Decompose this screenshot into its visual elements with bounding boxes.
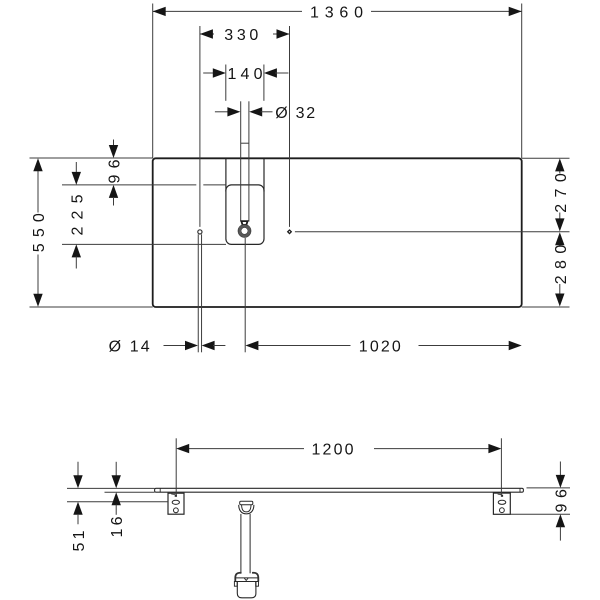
right extension at countertop top edge [522, 157, 570, 159]
1200 left extension line [175, 438, 177, 496]
basin cutout (rounded recess) [226, 159, 264, 245]
dimension 96 (lower right) [553, 462, 570, 541]
right wall bracket [493, 493, 510, 514]
drain connector trapezoid [241, 221, 247, 225]
drain centerline downward [244, 238, 246, 352]
O14 extension lines downward [198, 234, 201, 352]
dimension O32 [215, 105, 315, 122]
svg-text:330: 330 [224, 27, 258, 44]
dimension O14 [109, 339, 226, 356]
left extension at countertop top edge [30, 157, 153, 159]
drain flange cap [240, 501, 253, 504]
svg-text:280: 280 [553, 245, 570, 285]
dimension 140 [203, 66, 288, 83]
dimension 270 [553, 158, 570, 231]
centerline fixing point / 330 right extension [289, 26, 291, 227]
svg-text:550: 550 [31, 213, 48, 252]
dimension 1020 [245, 339, 521, 356]
svg-text:Ø 32: Ø 32 [275, 105, 315, 122]
dimension 1360 [153, 4, 522, 21]
drain collar U [239, 505, 254, 514]
dimension 51 [71, 462, 88, 552]
svg-text:270: 270 [553, 173, 570, 213]
extension at slab top left [67, 487, 155, 489]
faucet slot channel [241, 101, 249, 221]
centerline tap hole / 330 left extension [199, 26, 201, 227]
drain hole ring (O32) [238, 225, 251, 238]
drain tailpipe [241, 514, 250, 573]
left fixing bolt mark [171, 494, 177, 497]
svg-text:225: 225 [69, 194, 86, 235]
extension at slab bottom left [105, 491, 155, 493]
1200 right extension line [500, 438, 502, 496]
left extension at countertop bottom edge [30, 306, 153, 308]
left wall bracket [168, 493, 184, 514]
140 extension lines [226, 65, 264, 101]
extension at slab top right [527, 487, 571, 489]
extension line from fixing point to right [295, 231, 570, 233]
dimension 280 [553, 232, 570, 306]
trap cup [234, 573, 259, 598]
extension line at cutout top (y=185) [62, 184, 226, 186]
console slab (front view) [155, 488, 524, 492]
right extension at countertop bottom edge [522, 306, 570, 308]
svg-text:Ø 14: Ø 14 [109, 339, 150, 356]
extension at bracket bottom right [510, 513, 570, 515]
1360 left extension line [152, 4, 154, 159]
tap hole O14 [198, 230, 202, 234]
dimension 96 (upper left) [107, 140, 124, 206]
1360 right extension line [521, 4, 523, 159]
extension at bracket slot level [67, 501, 168, 503]
dimension 16 [109, 462, 126, 538]
dimension 225 [69, 162, 86, 269]
dimension 1200 [176, 442, 501, 459]
svg-text:140: 140 [228, 66, 263, 83]
extension line at cutout bottom (y=244) [62, 243, 226, 245]
right fixing bolt mark [498, 494, 504, 497]
countertop outline (plan view) [153, 158, 522, 307]
dimension 550 [31, 158, 48, 306]
fixing point diamond [287, 229, 292, 234]
dimension 330 [200, 27, 290, 44]
